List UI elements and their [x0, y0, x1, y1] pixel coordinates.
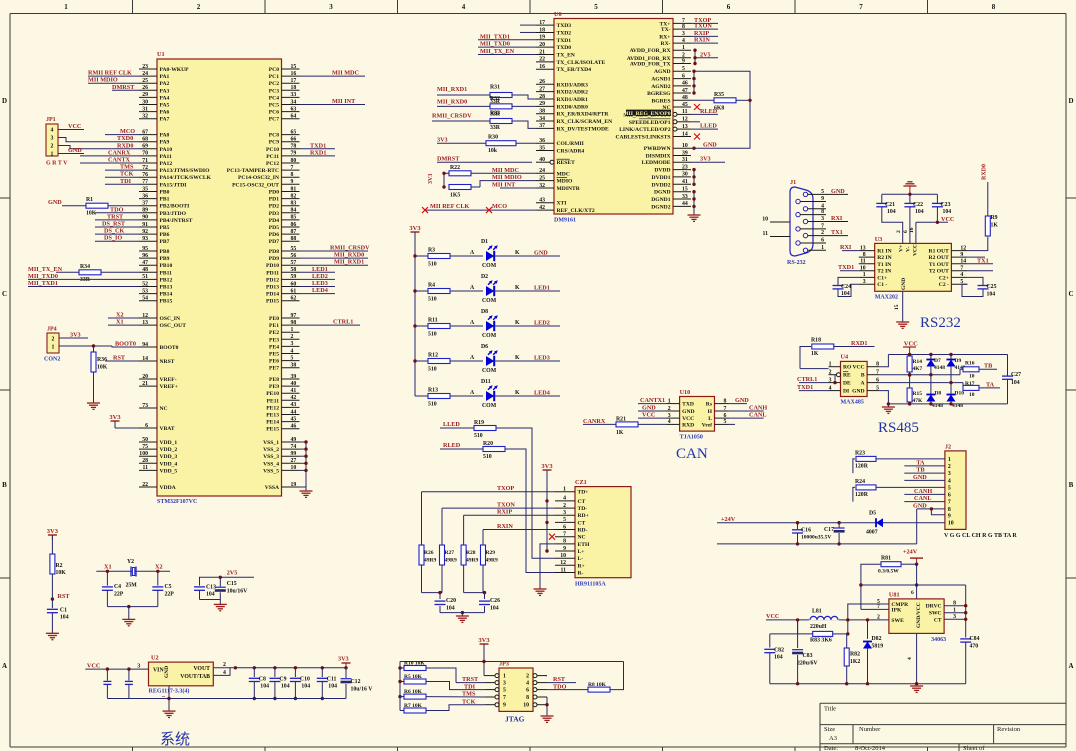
- svg-text:DVDD1: DVDD1: [652, 175, 671, 181]
- svg-text:PA3: PA3: [160, 88, 170, 94]
- svg-text:C83: C83: [803, 653, 813, 659]
- svg-text:CANH: CANH: [749, 405, 767, 412]
- svg-text:L81: L81: [812, 609, 822, 615]
- U4 pin 7 B: [867, 374, 879, 376]
- capacitor C12 10u/16V electrolytic: [344, 666, 347, 669]
- svg-text:COM: COM: [482, 298, 497, 304]
- svg-text:66: 66: [291, 137, 297, 143]
- svg-text:TA: TA: [916, 459, 925, 466]
- wire net TXOP to CZ1 TD+: [422, 491, 556, 493]
- U6 pin 14 CABLESTS/LINKSTS: [673, 136, 691, 138]
- wire 3V3 LED rail: [414, 232, 416, 396]
- svg-text:GND: GND: [164, 666, 170, 678]
- svg-text:+24V: +24V: [903, 549, 918, 556]
- capacitor C26 104: [479, 600, 490, 602]
- U1 pin 68 PA9: [139, 141, 157, 143]
- svg-text:5: 5: [948, 485, 951, 491]
- svg-text:69: 69: [142, 144, 148, 150]
- U1 pin 86 PD5: [282, 226, 300, 228]
- svg-text:47K: 47K: [913, 398, 924, 404]
- svg-text:R15: R15: [913, 391, 923, 397]
- U1 pin 79 PC11: [282, 155, 300, 157]
- LED D6: [486, 356, 494, 366]
- svg-text:10K: 10K: [86, 211, 97, 217]
- svg-text:8: 8: [876, 362, 879, 368]
- CZ1 pin 11 R-: [555, 572, 575, 574]
- connector J2 body: [945, 451, 966, 530]
- svg-text:28: 28: [539, 94, 545, 100]
- svg-text:18: 18: [291, 85, 297, 91]
- svg-text:TX1: TX1: [831, 229, 843, 236]
- wire cap commons to ground: [440, 612, 485, 614]
- svg-text:57: 57: [291, 260, 297, 266]
- svg-text:X1: X1: [116, 319, 124, 326]
- svg-text:R17: R17: [965, 381, 975, 387]
- U81 pin 3 CT: [943, 618, 945, 620]
- U6 pin 39 DISMDIX: [673, 155, 691, 157]
- wire net RMII CRSDV from U1 pin 55: [300, 250, 369, 252]
- svg-text:SWC: SWC: [929, 611, 942, 617]
- resistor R21 1K from CANRX: [583, 423, 616, 425]
- svg-text:80: 80: [291, 158, 297, 164]
- svg-text:R83 3K6: R83 3K6: [810, 638, 832, 644]
- svg-text:A3: A3: [829, 735, 837, 742]
- resistor R31 33R: [437, 94, 490, 96]
- svg-text:TX_CLK/ISOLATE: TX_CLK/ISOLATE: [557, 60, 606, 66]
- svg-text:Vref: Vref: [702, 422, 712, 428]
- svg-text:8: 8: [948, 507, 951, 513]
- resistor R83 3K6: [796, 618, 799, 621]
- wire right loop DRVC SWC CT to C84: [965, 585, 967, 638]
- svg-text:R28: R28: [466, 550, 476, 556]
- svg-text:NRST: NRST: [160, 359, 175, 365]
- svg-text:34: 34: [539, 116, 545, 122]
- U6 pin 35 CRS/ADR4: [536, 150, 554, 152]
- U1 pin 71 PA12: [139, 162, 157, 164]
- svg-text:RLED: RLED: [700, 108, 718, 115]
- diode D8 4148: [930, 375, 932, 395]
- svg-text:GND: GND: [48, 199, 62, 206]
- U10 pin 5 Vref: [715, 423, 729, 425]
- wire CZ1 ETH to ground: [540, 544, 555, 589]
- U6 pin 27 RXD2/ADR2: [536, 91, 554, 93]
- svg-text:6: 6: [948, 492, 951, 498]
- wire U2 VOUT to 3V3 rail: [213, 667, 235, 669]
- svg-text:9: 9: [960, 252, 963, 258]
- ground below C20 C26: [456, 615, 469, 617]
- svg-text:R2 OUT: R2 OUT: [929, 255, 950, 261]
- wire +24V rail to J2 pin10: [717, 522, 945, 524]
- wire net LED2 from U1: [300, 278, 336, 280]
- CZ1 pin 12 R+: [555, 564, 575, 566]
- wire net RXD1 from U1 pin 79: [300, 155, 336, 157]
- svg-text:29: 29: [142, 92, 148, 98]
- svg-text:53: 53: [142, 288, 148, 294]
- svg-text:VCC: VCC: [852, 365, 864, 371]
- svg-text:AGND2: AGND2: [651, 84, 670, 90]
- svg-text:49R9: 49R9: [486, 558, 498, 564]
- svg-text:7: 7: [563, 532, 566, 538]
- svg-text:CT: CT: [578, 499, 586, 505]
- svg-text:20: 20: [539, 42, 545, 48]
- ground for U6 DGND: [688, 214, 701, 216]
- svg-text:PD10: PD10: [266, 263, 279, 269]
- svg-text:3V3: 3V3: [409, 225, 421, 232]
- svg-text:DVDD: DVDD: [654, 168, 670, 174]
- junction on LED rail: [413, 289, 416, 292]
- wire D1 cathode to GND: [494, 255, 560, 257]
- svg-text:RXD1/ADR1: RXD1/ADR1: [557, 97, 589, 103]
- svg-text:TXD1: TXD1: [310, 142, 326, 149]
- svg-text:PC7: PC7: [269, 117, 279, 123]
- svg-text:X2: X2: [155, 564, 163, 571]
- svg-text:CANH: CANH: [914, 488, 932, 495]
- wire VCC to U3 pin16: [916, 221, 948, 223]
- wire U6 TXD2: [520, 31, 536, 33]
- svg-text:DMRST: DMRST: [437, 156, 460, 163]
- svg-text:C: C: [1068, 290, 1073, 298]
- wire D8 cathode to LED2: [494, 325, 560, 327]
- svg-text:PC6: PC6: [269, 110, 279, 116]
- wire U4 GND pin5 to rail: [879, 391, 888, 404]
- svg-text:C82: C82: [774, 648, 784, 654]
- U6 pin 16 TX_ER/TXD4: [536, 68, 554, 70]
- svg-text:39: 39: [291, 374, 297, 380]
- svg-text:77: 77: [142, 179, 148, 185]
- U6 pin 30 DVDD1: [673, 176, 691, 178]
- power 3V3 system output: [345, 663, 347, 668]
- U1 pin 24 PA1: [139, 75, 157, 77]
- svg-text:RXD: RXD: [682, 422, 694, 428]
- U1 pin 40 PE9: [282, 385, 300, 387]
- svg-text:PB5: PB5: [160, 225, 170, 231]
- svg-text:C2 -: C2 -: [939, 282, 949, 288]
- U6 pin 24 MDC: [536, 172, 554, 174]
- wire R12 anode: [450, 360, 483, 362]
- wire net MII INT to U6 pin 32: [500, 187, 536, 189]
- svg-text:7: 7: [960, 266, 963, 272]
- U1 pin 82 PD1: [282, 198, 300, 200]
- svg-text:1: 1: [291, 327, 294, 333]
- svg-text:47: 47: [142, 260, 148, 266]
- svg-text:R33: R33: [490, 111, 500, 117]
- svg-text:47: 47: [682, 88, 688, 94]
- svg-text:U4: U4: [841, 354, 849, 361]
- ground below U2: [163, 710, 176, 712]
- svg-text:C16: C16: [801, 528, 811, 534]
- svg-text:4007: 4007: [866, 530, 878, 536]
- U1 pin 28 VDD_4: [139, 462, 157, 464]
- svg-text:C11: C11: [327, 677, 337, 683]
- svg-text:DGND2: DGND2: [651, 204, 670, 210]
- U10 pin 8 Rs: [715, 403, 729, 405]
- U1 pin 70 PA11: [139, 155, 157, 157]
- wire net GND to J2 pin8: [917, 508, 945, 510]
- U1 pin 30 PA5: [139, 104, 157, 106]
- JP3 pin 2: [537, 675, 547, 677]
- svg-text:39: 39: [682, 150, 688, 156]
- svg-text:MII INT: MII INT: [332, 98, 356, 105]
- svg-text:PC4: PC4: [269, 95, 279, 101]
- svg-text:220uH: 220uH: [810, 624, 827, 630]
- U6 pin 22 TX_CLK/ISOLATE: [536, 61, 554, 63]
- svg-text:PA7: PA7: [160, 117, 170, 123]
- svg-text:12: 12: [142, 313, 148, 319]
- svg-text:RXD3/ADR3: RXD3/ADR3: [557, 82, 589, 88]
- U3 pin 3 C1 -: [859, 283, 875, 285]
- svg-text:VDD_5: VDD_5: [160, 468, 178, 474]
- LED D1: [486, 251, 494, 261]
- U1 pin 51 PB12: [139, 278, 157, 280]
- svg-text:B: B: [1069, 481, 1074, 489]
- wire JP3 pin10 to ground rail: [546, 704, 548, 706]
- svg-text:61: 61: [291, 288, 297, 294]
- svg-text:R82: R82: [850, 652, 860, 658]
- svg-text:DGND1: DGND1: [651, 197, 670, 203]
- resistor R24 120R: [853, 487, 855, 501]
- svg-text:R7 10K: R7 10K: [404, 703, 423, 709]
- ground for CZ1: [534, 588, 547, 590]
- svg-text:7: 7: [821, 223, 824, 229]
- U6 pin 15 DGND: [673, 191, 691, 193]
- svg-text:8: 8: [821, 209, 824, 215]
- resistor R35 6K8: [691, 99, 714, 101]
- svg-text:R2: R2: [56, 563, 63, 569]
- svg-text:92: 92: [142, 229, 148, 235]
- capacitor C8 104: [253, 666, 256, 669]
- resistor R19 510 LLED: [440, 427, 474, 429]
- wire net 3V3 on U6 LEDMODE pin 31: [691, 161, 725, 163]
- svg-text:R27: R27: [445, 550, 455, 556]
- U10 pin 7 H: [715, 410, 729, 412]
- U1 pin 99 VSS_3: [282, 455, 300, 457]
- net label RST: [51, 597, 54, 600]
- svg-text:58: 58: [291, 267, 297, 273]
- U1 pin 4 PE5: [282, 353, 300, 355]
- wire VSS bus join: [305, 442, 307, 487]
- svg-text:PA10: PA10: [160, 147, 173, 153]
- net label DS_RST on U1 pin 91: [95, 226, 139, 228]
- svg-text:Date:: Date:: [824, 745, 838, 751]
- diode D82 5819 schottky: [866, 618, 869, 621]
- svg-text:51: 51: [142, 274, 148, 280]
- svg-text:120R: 120R: [855, 492, 869, 498]
- U1 pin 80 PC12: [282, 162, 300, 164]
- svg-text:R12: R12: [428, 353, 438, 359]
- wire net TXD1 to U3 pin10: [840, 270, 859, 272]
- svg-text:R20: R20: [483, 441, 493, 447]
- svg-text:97: 97: [291, 313, 297, 319]
- svg-text:PC14-OSC32_IN: PC14-OSC32_IN: [238, 175, 279, 181]
- svg-text:5: 5: [682, 66, 685, 72]
- U6 pin 8 TX-: [673, 28, 691, 30]
- svg-text:C17: C17: [824, 527, 834, 533]
- wire net RXIP to CZ1 RD+: [464, 514, 555, 516]
- svg-text:1: 1: [668, 398, 671, 404]
- U6 pin 43 XTI: [536, 202, 554, 204]
- svg-text:U1: U1: [157, 51, 165, 58]
- J1 pin 6: [796, 241, 800, 245]
- wire net MII RXD1 from U1 pin 57: [300, 264, 369, 266]
- svg-text:30: 30: [142, 99, 148, 105]
- svg-text:33: 33: [291, 92, 297, 98]
- svg-text:H: H: [708, 409, 713, 415]
- ground for U1 VSSA: [305, 487, 307, 491]
- svg-text:33R: 33R: [490, 125, 501, 131]
- svg-text:PD4: PD4: [269, 218, 279, 224]
- svg-text:TD-: TD-: [578, 506, 588, 512]
- svg-text:R+: R+: [578, 563, 585, 569]
- svg-text:C10: C10: [300, 677, 310, 683]
- svg-text:XTI: XTI: [557, 201, 567, 207]
- wire net RST to U1 NRST pin 14: [105, 360, 139, 362]
- svg-text:K: K: [515, 285, 520, 291]
- svg-text:R1 OUT: R1 OUT: [929, 249, 950, 255]
- net label MCO on U1 pin 67: [105, 134, 139, 136]
- U1 pin 16 PC1: [282, 75, 300, 77]
- svg-text:9: 9: [503, 703, 506, 709]
- svg-text:24: 24: [539, 168, 545, 174]
- svg-text:L: L: [708, 416, 712, 422]
- svg-text:PC8: PC8: [269, 133, 279, 139]
- svg-text:CAN: CAN: [676, 446, 708, 462]
- U6 pin 13 LINK/ACTLED/OP2: [677, 128, 691, 130]
- wire JP4 pin2 3V3: [59, 337, 88, 339]
- wire crystal row: [96, 570, 170, 572]
- svg-text:PB7: PB7: [160, 239, 170, 245]
- wire net GND from U10 pin8: [729, 403, 748, 405]
- svg-text:7: 7: [291, 165, 294, 171]
- connector JP1: [46, 124, 58, 156]
- svg-text:VREF+: VREF+: [160, 384, 178, 390]
- wire 3V3 to JP3 pin1: [483, 644, 485, 676]
- svg-text:CABLESTS/LINKSTS: CABLESTS/LINKSTS: [615, 135, 670, 141]
- CZ1 pin 10 L-: [555, 557, 575, 559]
- svg-text:LINK/ACTLED/OP2: LINK/ACTLED/OP2: [619, 127, 670, 133]
- svg-text:PD7: PD7: [269, 239, 279, 245]
- svg-text:VSS_1: VSS_1: [263, 440, 279, 446]
- capacitor C20 104: [435, 600, 446, 602]
- svg-text:PD0: PD0: [269, 190, 279, 196]
- U1 pin 3 PE4: [282, 345, 300, 347]
- svg-text:MII_TXD1: MII_TXD1: [480, 33, 510, 40]
- svg-text:1K: 1K: [811, 351, 819, 357]
- svg-text:42: 42: [291, 395, 297, 401]
- resistor R2 10K vertical: [51, 535, 53, 554]
- U1 pin 73 NC: [139, 407, 157, 409]
- svg-text:48: 48: [682, 95, 688, 101]
- svg-text:84: 84: [291, 208, 297, 214]
- svg-text:C8: C8: [259, 677, 266, 683]
- net label CANTX on U1 pin 71: [80, 162, 139, 164]
- svg-text:DM9161: DM9161: [554, 218, 576, 224]
- svg-text:10: 10: [860, 266, 866, 272]
- svg-text:4: 4: [223, 670, 226, 676]
- svg-text:104: 104: [301, 684, 310, 690]
- svg-text:PC9: PC9: [269, 140, 279, 146]
- svg-text:MII MDIO: MII MDIO: [492, 174, 522, 181]
- svg-text:10: 10: [560, 553, 566, 559]
- wire R26 R27 join to C20: [422, 592, 443, 594]
- svg-text:AVDD_FOR_RX: AVDD_FOR_RX: [630, 48, 671, 54]
- svg-text:TXD1: TXD1: [838, 264, 854, 271]
- svg-text:PC3: PC3: [269, 88, 279, 94]
- svg-text:2: 2: [821, 230, 824, 236]
- svg-text:52: 52: [142, 281, 148, 287]
- svg-text:C27: C27: [1011, 372, 1021, 378]
- svg-text:510: 510: [428, 332, 437, 338]
- svg-text:CANL: CANL: [749, 412, 767, 419]
- svg-text:86: 86: [291, 222, 297, 228]
- U10 pin 4 RXD: [666, 423, 680, 425]
- CZ1 pin 6 RD-: [555, 529, 575, 531]
- svg-text:PA6: PA6: [160, 110, 170, 116]
- U1 pin 84 PD3: [282, 212, 300, 214]
- svg-text:BGRESG: BGRESG: [647, 91, 671, 97]
- svg-text:5819: 5819: [872, 644, 884, 650]
- U4 pin 2 RE: [829, 374, 837, 376]
- svg-text:2: 2: [563, 503, 566, 509]
- wire net TXON to CZ1 TD-: [442, 507, 555, 509]
- svg-text:DRVC: DRVC: [926, 604, 942, 610]
- svg-text:PB13: PB13: [160, 285, 173, 291]
- svg-text:2: 2: [896, 230, 902, 233]
- svg-text:R13: R13: [428, 388, 438, 394]
- svg-text:PB6: PB6: [160, 232, 170, 238]
- resistor R11 510: [415, 325, 428, 327]
- LED D2: [486, 286, 494, 296]
- svg-text:98: 98: [291, 320, 297, 326]
- svg-text:71: 71: [142, 158, 148, 164]
- U1 pin 60 PD13: [282, 286, 300, 288]
- svg-text:RXI: RXI: [840, 244, 852, 251]
- svg-text:PD13: PD13: [266, 285, 279, 291]
- svg-text:36: 36: [142, 193, 148, 199]
- svg-text:6: 6: [727, 3, 731, 11]
- capacitor C17 electrolytic: [837, 521, 840, 524]
- capacitor C5 22P: [157, 571, 159, 585]
- wire net TXOP from U6 TX+: [691, 22, 718, 24]
- svg-text:PC15-OSC32_OUT: PC15-OSC32_OUT: [232, 182, 279, 188]
- U6 pin 28 RXD1/ADR1: [536, 98, 554, 100]
- wire D6 cathode to LED3: [494, 360, 560, 362]
- svg-text:RE: RE: [843, 373, 851, 379]
- svg-text:10: 10: [969, 374, 975, 380]
- svg-text:CANRX: CANRX: [583, 418, 606, 425]
- svg-text:MDINTR: MDINTR: [557, 186, 581, 192]
- svg-text:D8: D8: [935, 391, 942, 397]
- U3 pin 11 T1 IN: [859, 263, 875, 265]
- U3 pin 9 R2 OUT: [951, 256, 967, 258]
- wire 2V5 rail for AVDD pins: [694, 50, 696, 63]
- wire net TXD1 to U4 DI: [799, 390, 829, 392]
- svg-text:4: 4: [563, 496, 566, 502]
- svg-text:2: 2: [291, 334, 294, 340]
- wire net LED1 from U1: [300, 271, 336, 273]
- ground for JTAG: [541, 715, 554, 717]
- no-connect X on U6 pin 45: [694, 104, 700, 110]
- svg-text:70: 70: [142, 151, 148, 157]
- svg-text:104: 104: [887, 209, 896, 215]
- LED D11: [486, 391, 494, 401]
- wire net LED4 from U1: [300, 293, 336, 295]
- U6 pin 7 TX+: [673, 22, 691, 24]
- svg-text:LED1: LED1: [534, 285, 550, 292]
- capacitor C1 104: [51, 599, 53, 608]
- junction on LED rail: [413, 254, 416, 257]
- net label DS_CK on U1 pin 92: [95, 233, 139, 235]
- svg-text:R9: R9: [991, 215, 998, 221]
